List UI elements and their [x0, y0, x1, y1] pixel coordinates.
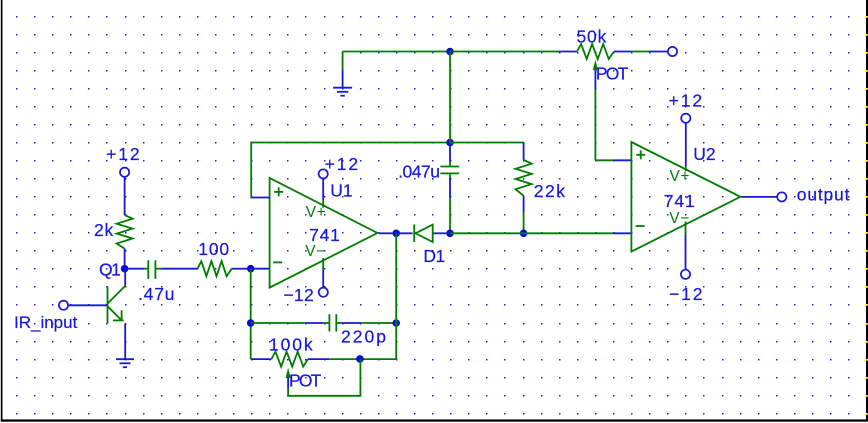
pin V+ stem (U2) — [685, 124, 687, 172]
resistor R3 22k — [516, 143, 532, 230]
wire + input loop horizontal to node B — [250, 142, 450, 144]
svg-text:2k: 2k — [94, 220, 114, 240]
wire node A to 50k pot — [450, 51, 577, 53]
terminal -12 (U1) — [319, 288, 328, 297]
wire 100k wiper loop — [288, 359, 360, 396]
resistor 2k R1 — [117, 215, 133, 249]
resistor 50k POT R4 — [577, 44, 614, 59]
terminal +12 (U2) — [681, 114, 690, 123]
capacitor C3 220p — [324, 314, 342, 331]
pin V- stem (U2) — [685, 222, 687, 270]
resistor R2 100 — [198, 261, 232, 276]
wire inverting node down to feedback — [250, 269, 252, 359]
svg-text:−12: −12 — [283, 285, 314, 305]
transistor Q1 (NPN) — [108, 269, 126, 324]
frame bottom border — [1, 419, 868, 421]
svg-text:−12: −12 — [669, 284, 704, 304]
wire U1 output to node E — [379, 232, 393, 234]
svg-text:U2: U2 — [693, 144, 715, 164]
svg-text:220p: 220p — [341, 326, 388, 346]
wire 2k to node Q1 — [124, 249, 126, 265]
wire node A down to node B — [449, 52, 451, 143]
svg-text:V−: V− — [669, 210, 689, 227]
port output — [777, 192, 786, 201]
wire node F to C3 — [251, 322, 324, 324]
capacitor C1 .47u — [144, 260, 162, 279]
svg-text:IR_input: IR_input — [14, 313, 78, 332]
resistor 100k POT R5 — [251, 352, 330, 367]
terminal -12 (U2) — [681, 270, 690, 279]
wire + input loop vertical — [250, 142, 252, 199]
wire node to U1 - input — [251, 268, 270, 270]
wire ground to node A — [343, 51, 450, 53]
wire node B to C2 — [449, 143, 451, 162]
svg-text:.47u: .47u — [138, 284, 175, 304]
wire 50k right to terminal — [614, 51, 667, 53]
wire IR_input port to Q1 base — [68, 304, 107, 306]
wire Q1 emitter to ground — [124, 324, 126, 360]
svg-text:POT: POT — [596, 63, 629, 83]
wire U2 output to port — [741, 196, 776, 198]
terminal +12 left — [120, 168, 129, 177]
svg-text:V+: V+ — [670, 168, 690, 185]
op-amp U2 (741) — [631, 142, 740, 252]
ground GND2 (Q1 emitter) — [116, 359, 134, 367]
wire node C to node D — [450, 232, 524, 234]
svg-text:22k: 22k — [534, 181, 567, 201]
frame left border — [1, 0, 3, 422]
wire node E to diode — [396, 232, 412, 234]
wire node D to U2 - input — [524, 232, 632, 234]
svg-text:+12: +12 — [669, 91, 704, 111]
svg-text:D1: D1 — [423, 246, 444, 266]
wire node Q1 to C1 — [127, 268, 144, 270]
wire C3 to node G — [342, 322, 392, 324]
wire R2 to inverting node — [232, 268, 247, 270]
pin V+ stem (U1) — [322, 179, 324, 208]
svg-text:V−: V− — [305, 243, 325, 260]
terminal pin (50k top right) — [668, 47, 677, 56]
svg-text:Q1: Q1 — [99, 260, 120, 280]
svg-text:741: 741 — [309, 225, 341, 245]
wire C1 to R2 — [162, 268, 198, 270]
svg-text:output: output — [797, 185, 850, 205]
node H junction dot (wiper tie) — [356, 355, 364, 363]
node E junction dot (U1 output) — [392, 230, 400, 238]
node B junction dot — [446, 139, 454, 147]
wire diode to node C — [434, 232, 447, 234]
wire node E down through node G to 100k row — [395, 233, 397, 359]
terminal +12 (U1) — [319, 169, 328, 178]
diode D1 — [414, 225, 433, 243]
pin V- stem (U1) — [322, 258, 324, 288]
wire 100k right to node E vertical — [329, 358, 396, 360]
op-amp U1 (741) — [270, 178, 378, 288]
100k pot wiper arrow — [286, 368, 291, 378]
wire 50k wiper to U2 + input — [595, 70, 632, 160]
ground GND1 (top) — [333, 52, 352, 96]
frame right border — [866, 0, 868, 422]
svg-text:.047u: .047u — [398, 162, 439, 182]
wire +12 to 2k — [124, 178, 126, 216]
svg-text:+12: +12 — [106, 144, 141, 164]
svg-text:50k: 50k — [577, 27, 608, 47]
capacitor C2 .047u — [440, 162, 459, 178]
node D junction dot — [520, 230, 528, 238]
svg-text:100: 100 — [198, 239, 230, 259]
node inverting-input junction dot — [247, 265, 255, 273]
wire U1 + input stub — [251, 197, 270, 199]
node A junction dot — [446, 48, 454, 56]
node C junction dot — [446, 230, 454, 238]
50k pot wiper arrow — [593, 60, 598, 70]
svg-text:POT: POT — [289, 370, 322, 390]
node G junction dot (feedback right) — [392, 319, 400, 327]
node F junction dot (feedback left) — [247, 319, 255, 327]
svg-text:U1: U1 — [330, 181, 352, 201]
wire node B to 22k — [450, 142, 524, 144]
node Q1-collector junction dot — [121, 265, 129, 273]
wire C2 to node C — [449, 178, 451, 230]
port IR_input — [59, 301, 68, 310]
svg-text:741: 741 — [664, 191, 696, 211]
svg-text:+12: +12 — [325, 154, 360, 174]
svg-text:100k: 100k — [269, 334, 315, 354]
